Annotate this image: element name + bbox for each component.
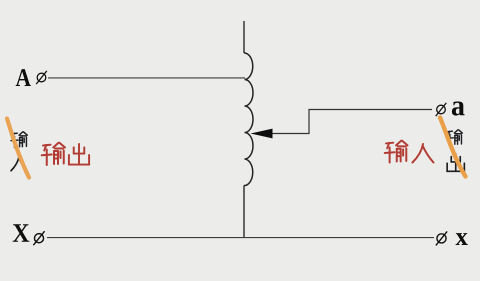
orange correction slash (left) [7, 119, 29, 178]
terminal a circle [436, 103, 447, 116]
label (black, struck out): 输 of left vertical 输入 [11, 132, 27, 148]
terminal x label [456, 233, 468, 245]
wiper arm wire to terminal a [270, 110, 432, 134]
wire: top feed vertical into coil [243, 21, 245, 53]
orange correction slash (right) [440, 118, 466, 177]
red label 入 of 输入 (right) [413, 144, 434, 163]
wire: A terminal to coil top [48, 77, 245, 79]
red label 输 of 输出 (left) [42, 143, 65, 165]
red label 输 of 输入 (right) [385, 141, 408, 163]
terminal A label [16, 69, 31, 86]
wiper arrowhead [251, 129, 273, 139]
terminal a label [452, 101, 465, 115]
winding L1 (5 arcs) [244, 53, 253, 186]
terminal A circle [36, 71, 47, 84]
terminal X label [13, 224, 30, 242]
terminal X circle [33, 231, 44, 245]
wire: bottom rail X to x [47, 237, 434, 239]
wire: coil bottom to X-x rail [243, 186, 245, 238]
terminal x circle [436, 231, 447, 245]
label (black, struck out): 输 of right vertical 输出 [447, 130, 463, 145]
label (black, struck out): 出 of right vertical 输出 [447, 154, 464, 172]
red label 出 of 输出 (left) [69, 144, 89, 165]
label (black, struck out): 入 of left vertical 输入 [11, 157, 27, 171]
